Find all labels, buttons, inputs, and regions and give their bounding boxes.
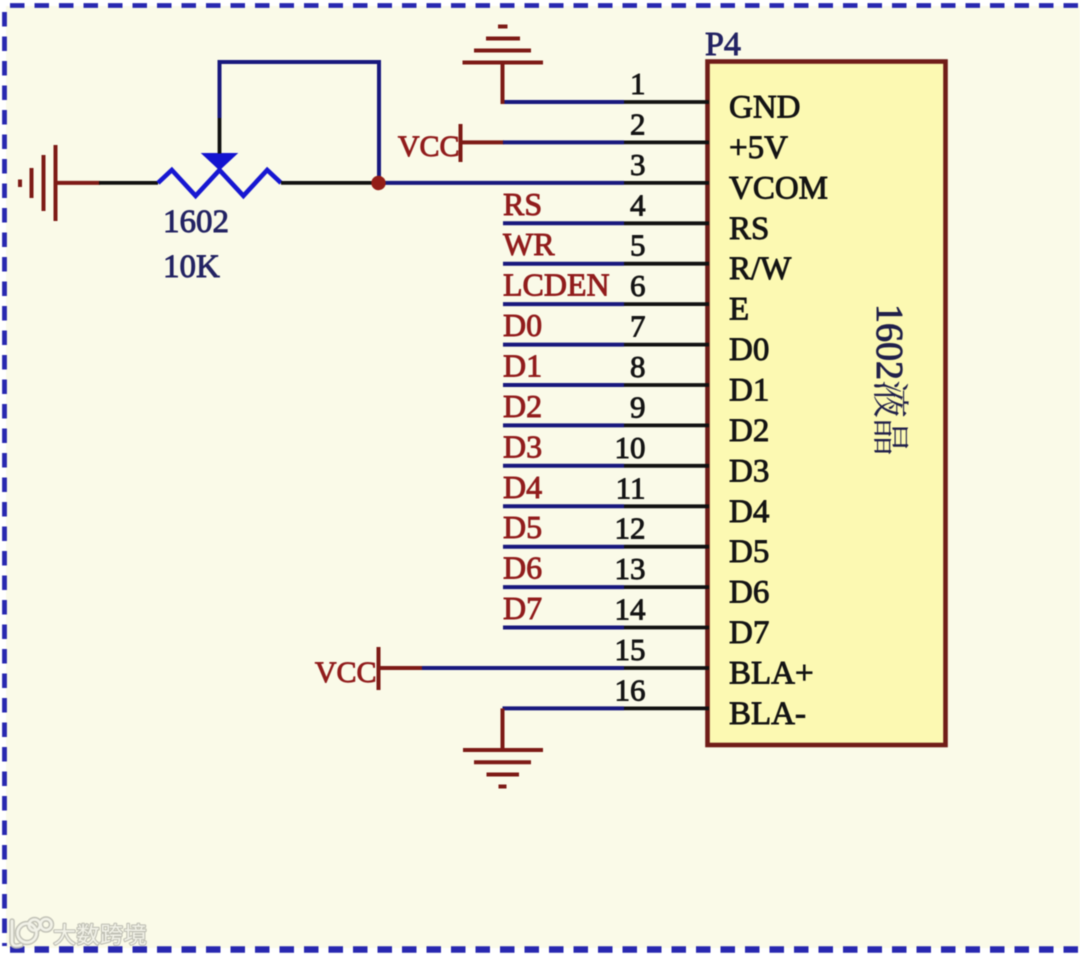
label 1602液晶 [868,304,910,454]
svg-text:D5: D5 [729,534,769,570]
wire wiper loop [218,62,382,183]
pin 4 RS [624,187,769,247]
svg-text:14: 14 [615,592,647,627]
svg-text:VCOM: VCOM [729,170,828,206]
svg-text:WR: WR [503,226,555,262]
svg-text:D4: D4 [729,494,769,530]
svg-text:D7: D7 [729,615,769,651]
svg-text:4: 4 [630,187,646,222]
pin 15 BLA+ [615,632,814,692]
svg-text:10K: 10K [163,249,220,285]
junction dot [371,176,385,190]
svg-text:D0: D0 [729,332,769,368]
svg-text:D1: D1 [503,348,542,384]
svg-text:1: 1 [630,66,646,101]
pin 11 D4 [616,470,770,530]
pin 6 E [624,268,749,328]
svg-text:3: 3 [630,147,646,182]
svg-text:15: 15 [615,632,646,667]
svg-text:13: 13 [615,551,646,586]
pin 2 +5V [624,106,788,166]
svg-text:E: E [729,292,749,328]
svg-text:1602: 1602 [163,204,229,240]
svg-text:+5V: +5V [729,130,788,166]
pin 16 BLA- [615,672,807,732]
svg-text:6: 6 [630,268,646,303]
net label D5 + wire [503,509,624,547]
watermark 大数跨境 [12,919,146,946]
pin 8 D1 [624,349,769,409]
svg-text:5: 5 [630,228,646,263]
svg-text:RS: RS [503,186,542,222]
svg-text:11: 11 [616,470,646,505]
ground GND2 left [20,145,100,221]
svg-text:9: 9 [630,389,646,424]
svg-text:D3: D3 [729,453,769,489]
svg-text:7: 7 [630,309,646,344]
svg-text:D7: D7 [503,590,542,626]
svg-text:D2: D2 [729,413,769,449]
pin 9 D2 [624,389,769,449]
svg-text:D3: D3 [503,428,542,464]
wire pin15 net [422,666,624,670]
svg-text:P4: P4 [705,26,741,63]
svg-text:16: 16 [615,672,646,707]
pin 1 GND [624,66,801,126]
svg-text:BLA-: BLA- [729,696,806,732]
wire pin16 net [503,706,625,710]
svg-text:1602: 1602 [868,304,910,380]
net label LCDEN + wire [503,267,624,305]
pin 5 R/W [624,228,792,288]
svg-text:RS: RS [729,211,769,247]
pin 13 D6 [615,551,770,611]
wire pin2 net [503,140,624,144]
svg-text:VCC: VCC [315,656,377,689]
net label D3 + wire [503,428,624,466]
svg-text:D4: D4 [503,469,542,505]
svg-text:R/W: R/W [729,251,792,287]
svg-text:D1: D1 [729,373,769,409]
svg-text:D5: D5 [503,509,542,545]
potentiometer 1602 10K [99,118,379,196]
pin 10 D3 [615,430,770,490]
connector P4 body [708,62,946,746]
svg-text:12: 12 [615,511,646,546]
wire pin3 net [379,181,625,185]
svg-text:GND: GND [729,90,801,126]
svg-text:2: 2 [630,106,646,141]
pin 7 D0 [624,309,769,369]
net label D2 + wire [503,388,624,426]
net label D0 + wire [503,307,624,345]
pin 14 D7 [615,592,770,652]
power port VCC top [398,124,504,163]
net label WR + wire [503,226,624,264]
svg-text:8: 8 [630,349,646,384]
svg-text:D6: D6 [729,575,769,611]
svg-text:BLA+: BLA+ [729,656,814,692]
net label RS + wire [503,186,624,224]
net label D7 + wire [503,590,624,628]
svg-text:10: 10 [615,430,646,465]
svg-text:VCC: VCC [398,130,460,163]
ground GND3 bottom [463,708,543,786]
ground GND1 top (inverted) [463,27,544,105]
svg-text:D6: D6 [503,550,542,586]
svg-text:LCDEN: LCDEN [503,267,610,303]
svg-text:D2: D2 [503,388,542,424]
pin 3 VCOM [624,147,828,207]
svg-text:D0: D0 [503,307,542,343]
pin 12 D5 [615,511,770,571]
net label D4 + wire [503,469,624,507]
net label D6 + wire [503,550,624,588]
wire pin1 net [503,100,625,104]
net label D1 + wire [503,348,624,386]
power port VCC bottom [315,647,423,690]
